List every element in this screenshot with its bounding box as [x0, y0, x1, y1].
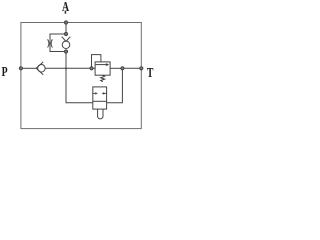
- wire V2 to pilot node: [45, 67, 90, 69]
- wire A down to throttle-check pair: [65, 24, 67, 32]
- node at A port on block edge: [64, 21, 67, 24]
- wire pilot node to relief valve: [93, 67, 95, 69]
- node at T port on block edge: [140, 67, 143, 70]
- wire pair to main line: [65, 53, 67, 68]
- test point left poppet arrow: [93, 92, 96, 94]
- junction dot main line / A branch: [65, 67, 67, 69]
- svg-text:P: P: [2, 63, 8, 79]
- node bottom of pair: [64, 50, 67, 53]
- wire node to T port: [124, 67, 141, 69]
- port label T: [147, 64, 154, 80]
- wire P to check valve V2: [23, 67, 37, 69]
- wire top rail of pair: [50, 34, 64, 52]
- relief valve RV pilot line: [92, 55, 101, 67]
- check valve V2 ball: [38, 65, 46, 73]
- wire relief valve to T-side: [110, 67, 121, 69]
- node test-point branch: [121, 67, 124, 70]
- test point division line: [93, 100, 107, 102]
- test point right poppet arrow: [104, 92, 107, 94]
- port label A: [62, 0, 69, 14]
- node top of pair: [64, 32, 67, 35]
- svg-text:T: T: [147, 64, 154, 80]
- relief valve RV flow arrow: [96, 64, 107, 66]
- wire right leg down to test point: [107, 70, 123, 103]
- port label P: [2, 63, 8, 79]
- test point protective cap: [98, 109, 103, 119]
- wire left leg down to test point: [66, 68, 93, 102]
- relief valve RV body: [95, 62, 110, 75]
- throttle (fixed restrictor) left branch arcs: [48, 39, 53, 47]
- check valve V1 seat: [62, 37, 71, 42]
- check valve V2 seat: [36, 62, 43, 75]
- port A stub: [64, 11, 66, 14]
- manifold block boundary: [21, 23, 141, 129]
- relief valve RV spring: [101, 75, 105, 82]
- test point coupling body: [93, 87, 107, 109]
- node at P port on block edge: [19, 67, 22, 70]
- node pilot tap: [90, 67, 93, 70]
- check valve V1 ball: [62, 41, 70, 49]
